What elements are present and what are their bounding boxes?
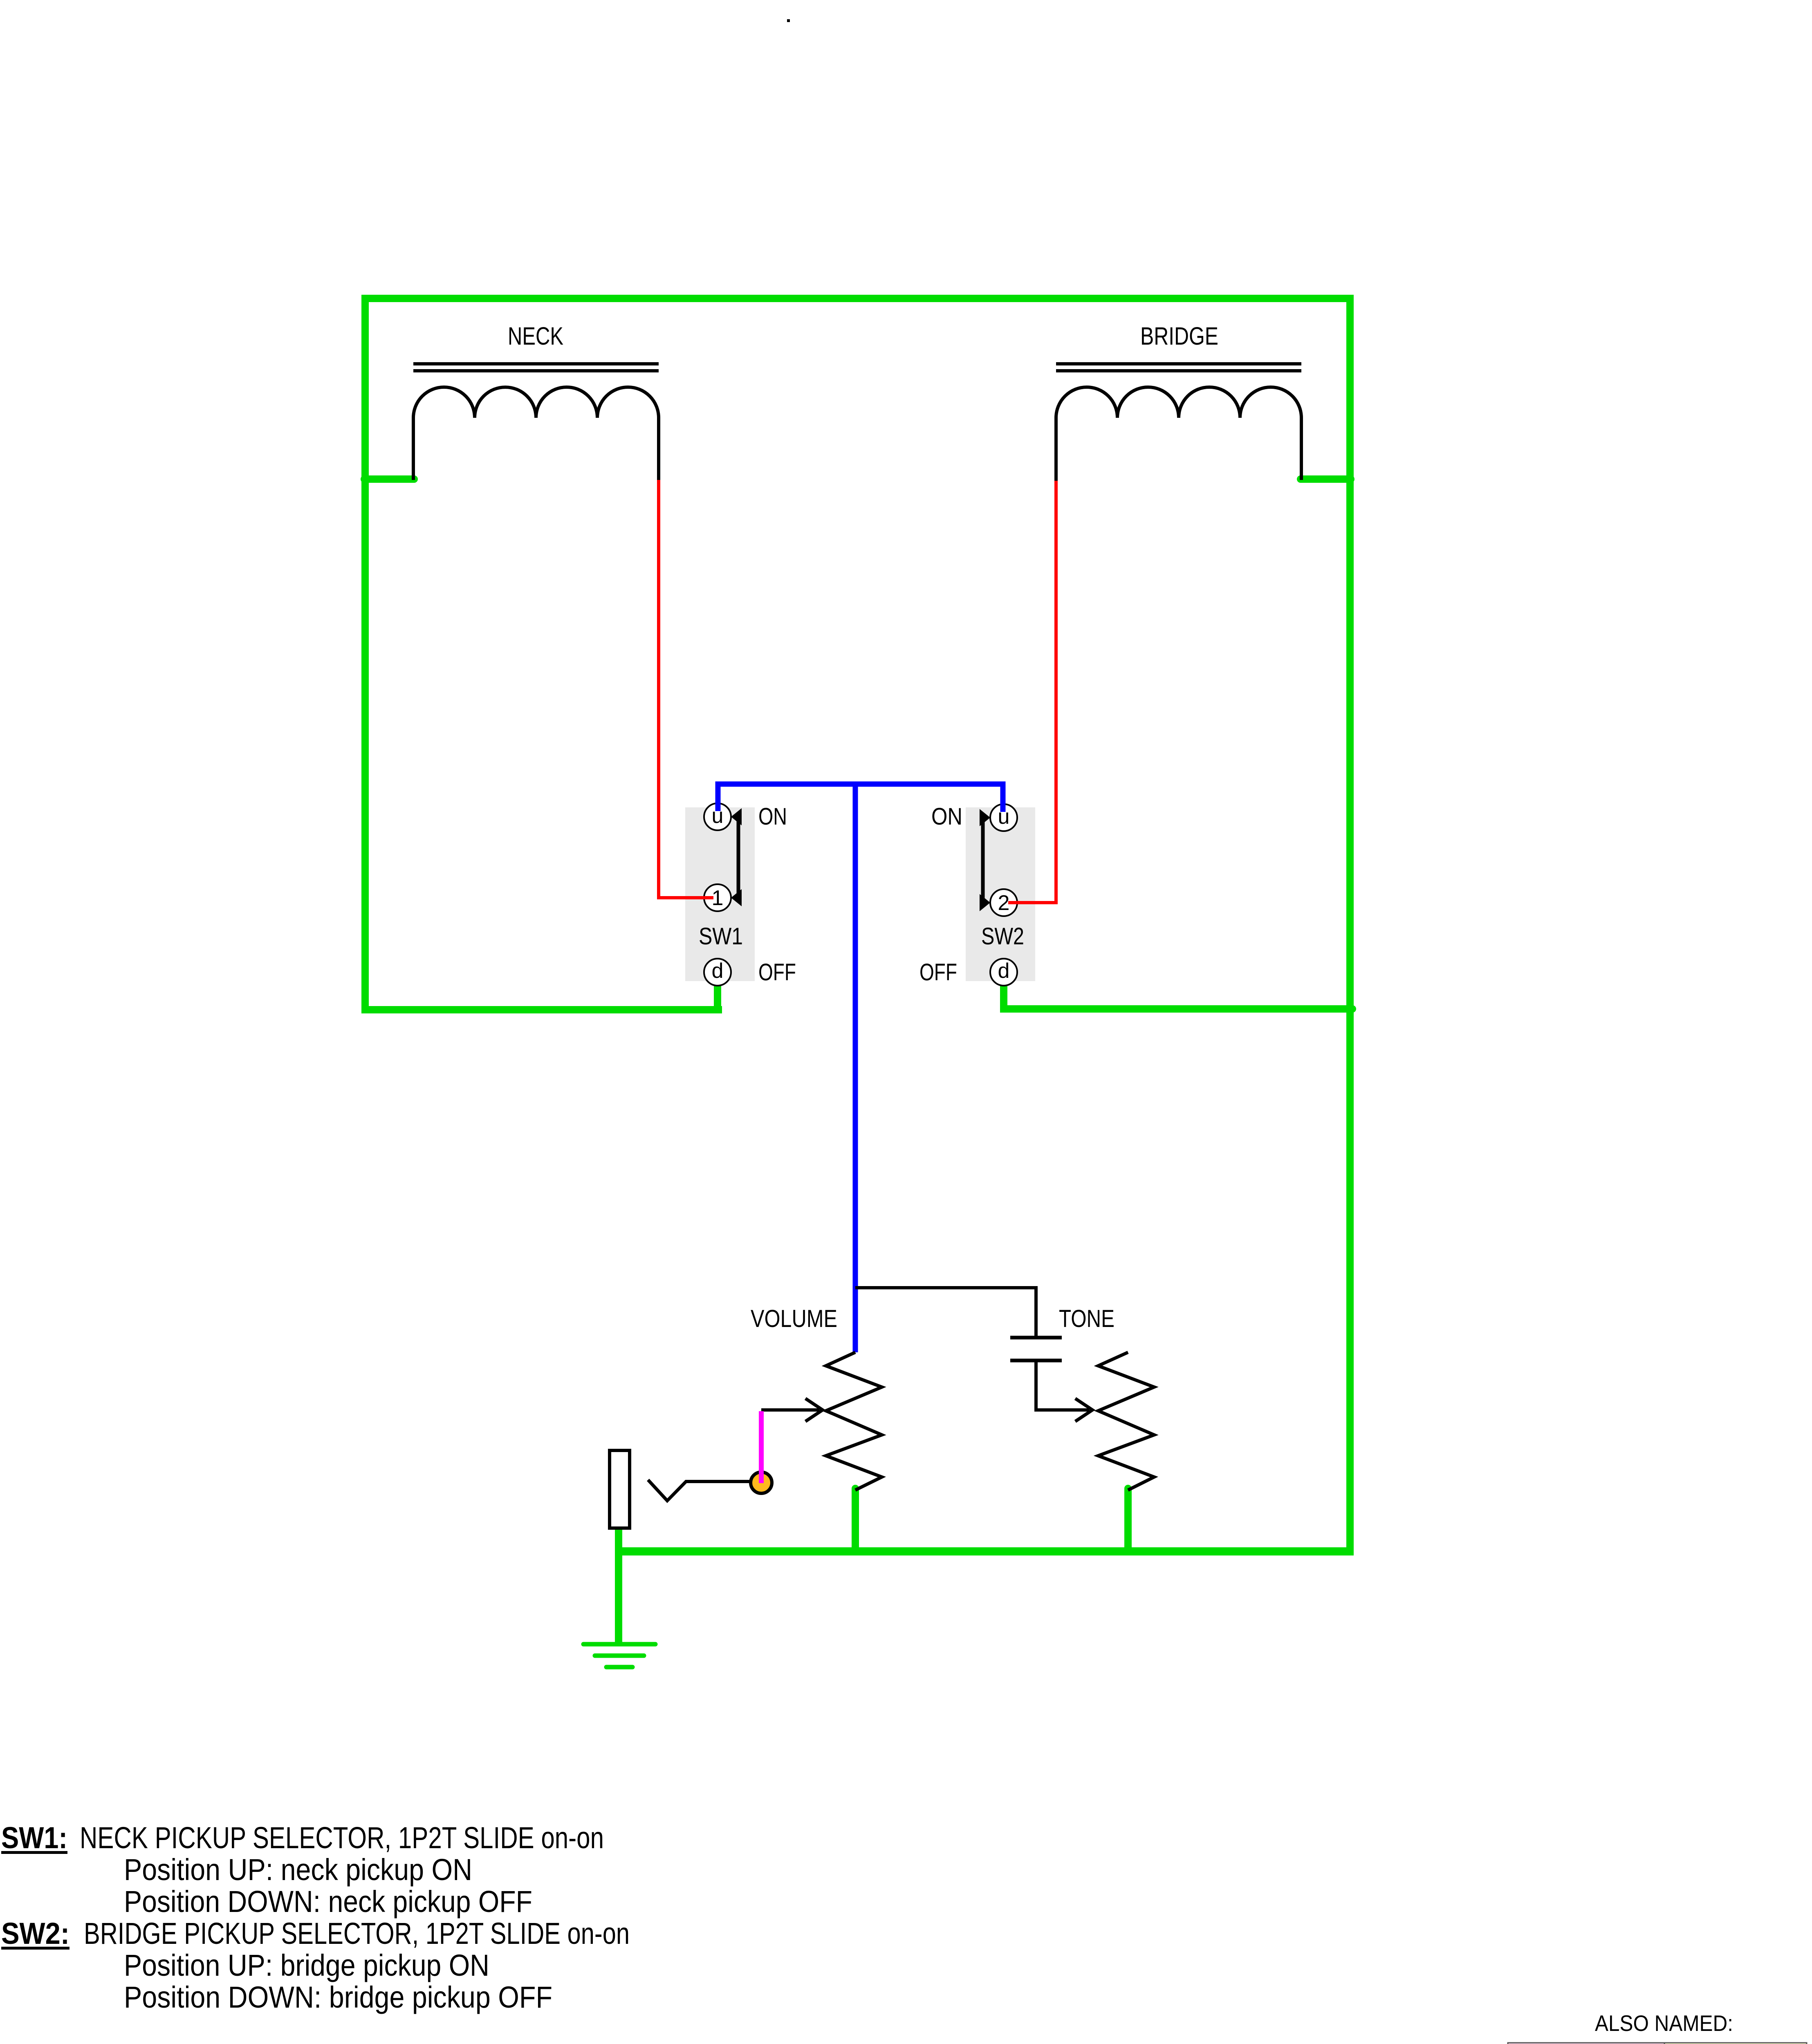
SW2 terminal u (990, 804, 1017, 831)
wire: blue signal drop to volume pot (853, 784, 858, 1352)
wire: green run to SW1 terminal d, horizontal (361, 1006, 722, 1013)
svg-text:NECK PICKUP SELECTOR, 1P2T SLI: NECK PICKUP SELECTOR, 1P2T SLIDE on-on (80, 1821, 604, 1855)
wire: capacitor to tone wiper (1036, 1360, 1089, 1410)
SW1 actuator bar (737, 817, 740, 898)
wire: green run from SW2 terminal d, horizontal (1000, 1005, 1350, 1013)
wire: black branch to tone capacitor (855, 1288, 1036, 1338)
SW2 actuator bar (981, 818, 985, 903)
pickup NECK coil (413, 387, 659, 418)
svg-text:ON: ON (931, 803, 962, 830)
svg-text:Position DOWN: bridge pickup O: Position DOWN: bridge pickup OFF (124, 1980, 552, 2014)
svg-text:d: d (712, 959, 724, 983)
wire: green stub from bridge pickup finish (1301, 475, 1351, 483)
svg-text:OFF: OFF (758, 959, 796, 986)
wire: green stub to neck pickup start (364, 475, 414, 483)
jack tip terminal node (751, 1472, 772, 1493)
svg-text:Position UP: neck pickup ON: Position UP: neck pickup ON (124, 1853, 472, 1887)
svg-text:VOLUME: VOLUME (751, 1305, 837, 1332)
stray dot mark (787, 19, 790, 22)
svg-text:SW2:: SW2: (1, 1916, 70, 1950)
note SW2 description line 1 (1, 1916, 630, 1950)
SW1 terminal 1 (704, 884, 731, 911)
VOLUME wiper arrow (761, 1399, 823, 1421)
svg-text:TONE: TONE (1059, 1305, 1115, 1332)
wire: neck coil finish lead (657, 418, 660, 482)
SW1 contact arrow at u (731, 808, 742, 825)
SW1 contact arrow at 1 (731, 889, 742, 906)
wire: green bus, right vertical (1346, 295, 1354, 1555)
svg-text:SW1: SW1 (699, 923, 743, 950)
wire: blue signal bus SW1-u to SW2-u (718, 784, 1003, 812)
table brand column background (1508, 2043, 1664, 2044)
note SW1 description line 1 (1, 1821, 604, 1855)
switch SW1 body (685, 807, 755, 981)
svg-text:BRIDGE: BRIDGE (1140, 322, 1218, 350)
SW2 terminal 2 (990, 889, 1017, 916)
svg-text:NECK: NECK (508, 322, 563, 350)
table model column background (1664, 2043, 1807, 2044)
wire: green bus, left vertical (361, 295, 369, 1013)
svg-text:SW2: SW2 (981, 923, 1024, 950)
wire: green stub below volume pot (852, 1488, 859, 1551)
svg-text:Position UP: bridge pickup ON: Position UP: bridge pickup ON (124, 1948, 489, 1982)
wire: red bridge hot lead (1008, 481, 1056, 903)
SW2 contact arrow at u (980, 809, 990, 826)
output jack tip contact (648, 1480, 751, 1501)
wire: green shield bus, top horizontal (361, 295, 1354, 302)
potentiometer VOLUME resistive element (826, 1352, 882, 1490)
output jack sleeve (610, 1450, 630, 1528)
wire: green jack sleeve to ground (615, 1528, 622, 1644)
TONE wiper arrow head (1075, 1399, 1092, 1421)
switch SW2 body (966, 807, 1035, 981)
svg-text:BRIDGE PICKUP SELECTOR, 1P2T S: BRIDGE PICKUP SELECTOR, 1P2T SLIDE on-on (84, 1916, 630, 1950)
svg-text:Position DOWN: neck pickup OFF: Position DOWN: neck pickup OFF (124, 1885, 532, 1918)
table border (1508, 2043, 1807, 2044)
wire: magenta wiper to jack tip (759, 1411, 764, 1483)
svg-text:ALSO NAMED:: ALSO NAMED: (1595, 2010, 1733, 2036)
SW2 terminal d (990, 959, 1017, 986)
pickup BRIDGE core lines (1056, 364, 1301, 371)
pickup NECK core lines (413, 364, 659, 371)
wire: red neck hot lead (659, 480, 713, 898)
svg-text:SW1:: SW1: (1, 1821, 67, 1855)
svg-text:OFF: OFF (919, 959, 957, 986)
wire: green run to SW1 terminal d, vertical (714, 983, 721, 1010)
wire: green bus, bottom horizontal (615, 1547, 1354, 1555)
wire: bridge coil start lead (1054, 418, 1058, 482)
svg-text:2: 2 (998, 891, 1010, 915)
wire: bridge coil finish lead (1300, 418, 1303, 480)
potentiometer TONE resistive element (1098, 1352, 1154, 1490)
svg-text:ON: ON (758, 803, 787, 830)
wire: neck coil start lead (412, 418, 415, 480)
SW1 terminal d (704, 959, 731, 986)
wire: green run from SW2 terminal d, vertical (1000, 983, 1007, 1009)
capacitor tone (1010, 1338, 1062, 1360)
pickup BRIDGE coil (1056, 387, 1301, 418)
SW1 terminal u (704, 803, 731, 830)
svg-text:d: d (998, 959, 1010, 983)
SW2 contact arrow at 2 (980, 894, 990, 911)
wire: green stub below tone pot (1124, 1488, 1132, 1551)
ground symbol (583, 1644, 655, 1667)
